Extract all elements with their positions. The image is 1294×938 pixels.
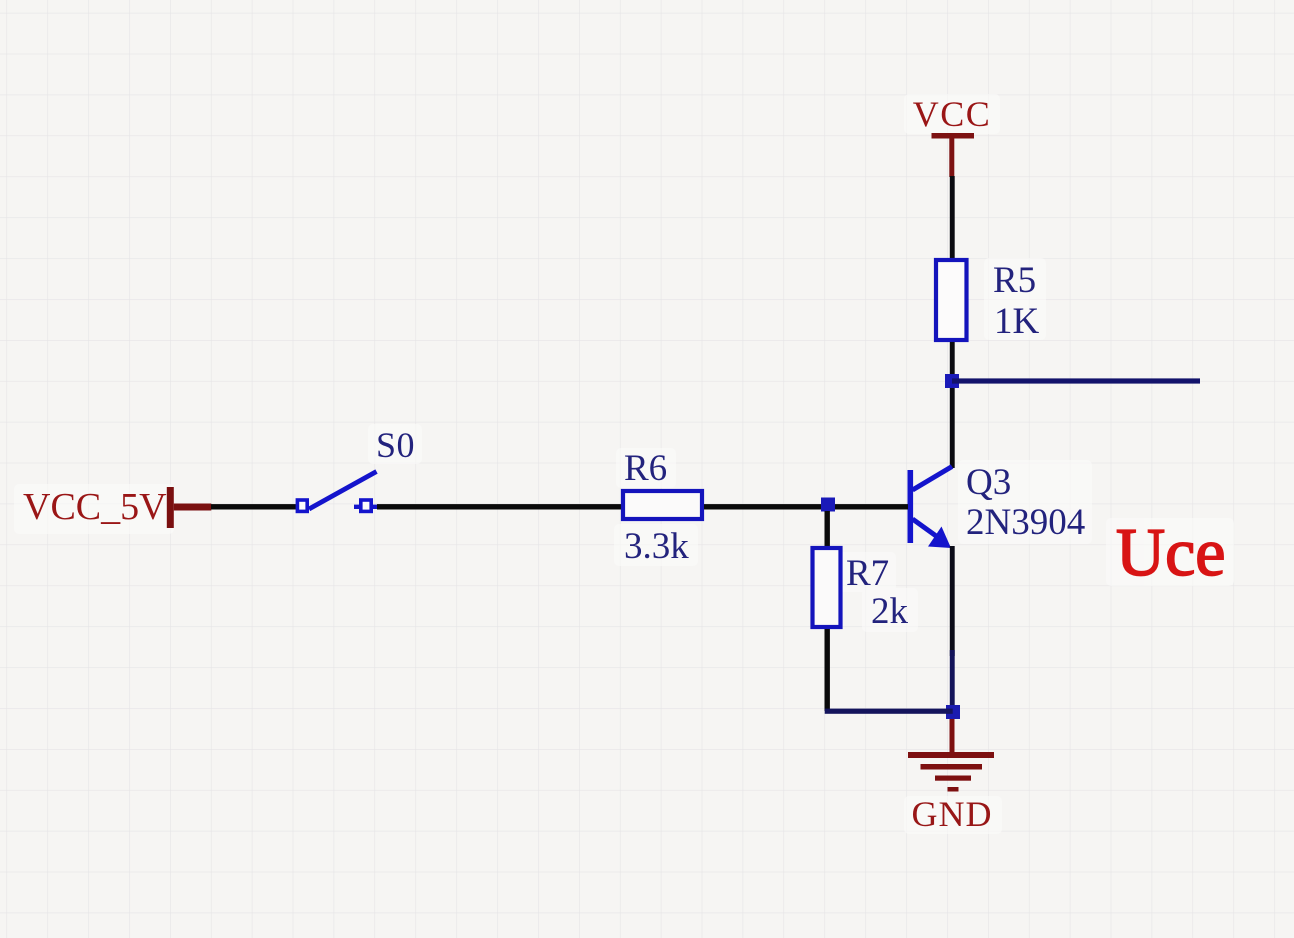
label Q3 designator — [966, 462, 1011, 503]
power port VCC bar symbol — [932, 133, 975, 139]
node junction collector output — [945, 374, 959, 388]
wire R5 to collector node — [950, 342, 955, 376]
wire VCC to R5 — [950, 176, 955, 258]
label R7 value 2k — [871, 591, 909, 632]
wire node to Q3 collector — [950, 388, 955, 468]
switch S0 right contact — [354, 500, 378, 511]
wire switch to R6 — [377, 504, 621, 509]
wire R7 down — [825, 629, 830, 711]
label S0 — [376, 425, 415, 465]
port VCC_5V label — [23, 486, 167, 528]
resistor R6 — [623, 491, 702, 519]
svg-text:S0: S0 — [376, 425, 415, 465]
svg-text:R5: R5 — [993, 260, 1036, 301]
switch S0 blade — [309, 472, 377, 510]
label R6 designator — [624, 448, 667, 489]
label R7 designator — [846, 553, 889, 594]
svg-text:VCC: VCC — [913, 94, 992, 134]
svg-text:VCC_5V: VCC_5V — [23, 486, 167, 528]
net label Uce — [1116, 514, 1225, 590]
label R5 designator — [993, 260, 1036, 301]
svg-text:GND: GND — [912, 794, 993, 834]
port VCC_5V pin bar — [167, 487, 174, 528]
transistor Q3 base bar — [908, 470, 914, 543]
wire Q3 emitter down — [950, 546, 955, 707]
wire port stub red — [174, 504, 212, 511]
power port VCC pin stub — [949, 138, 954, 177]
svg-text:R7: R7 — [846, 553, 889, 594]
text halo patches (jpeg-style light boxes) — [14, 94, 1234, 834]
wire node to Q3 base — [835, 504, 908, 509]
transistor Q3 emitter diagonal with arrow — [913, 519, 952, 548]
power port VCC label — [913, 94, 992, 134]
svg-text:R6: R6 — [624, 448, 667, 489]
label R6 value 3.3k — [624, 526, 689, 567]
svg-text:1K: 1K — [994, 301, 1040, 342]
wire port to switch S0 — [211, 504, 296, 509]
node junction base — [821, 498, 835, 512]
wire R7 bottom to emitter node — [825, 709, 953, 714]
svg-text:2N3904: 2N3904 — [966, 502, 1085, 543]
wire node to ground symbol — [950, 719, 955, 752]
ground symbol GND — [908, 752, 994, 792]
label GND — [912, 794, 993, 834]
svg-text:Uce: Uce — [1116, 514, 1225, 590]
wire node down to R7 — [825, 511, 830, 546]
svg-text:2k: 2k — [871, 591, 909, 632]
resistor R5 — [936, 260, 967, 340]
resistor R7 — [813, 548, 841, 627]
svg-text:3.3k: 3.3k — [624, 526, 689, 567]
label Q3 part number 2N3904 — [966, 502, 1085, 543]
label R5 value 1K — [994, 301, 1040, 342]
wire output net to right — [952, 378, 1200, 383]
transistor Q3 collector diagonal — [913, 467, 953, 491]
node junction emitter ground — [946, 705, 960, 719]
wire R6 to base node — [704, 504, 821, 509]
svg-text:Q3: Q3 — [966, 462, 1011, 503]
switch S0 left contact — [297, 500, 307, 511]
